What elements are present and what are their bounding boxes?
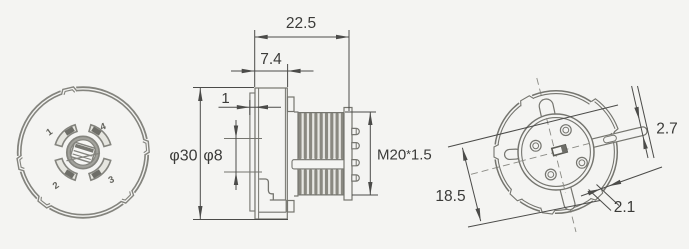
svg-text:φ30: φ30 bbox=[169, 148, 197, 165]
svg-text:M20*1.5: M20*1.5 bbox=[377, 147, 432, 164]
svg-text:7.4: 7.4 bbox=[260, 51, 282, 68]
svg-text:2.7: 2.7 bbox=[656, 121, 678, 138]
svg-text:18.5: 18.5 bbox=[435, 188, 465, 205]
svg-text:22.5: 22.5 bbox=[286, 15, 316, 32]
svg-text:1: 1 bbox=[221, 90, 229, 107]
svg-text:2.1: 2.1 bbox=[614, 199, 636, 216]
svg-text:φ8: φ8 bbox=[203, 148, 222, 165]
